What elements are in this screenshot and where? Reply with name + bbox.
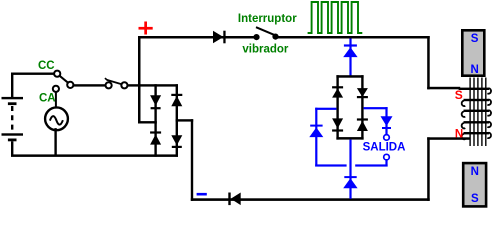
label SALIDA xyxy=(363,141,406,153)
wire switch bus (y=85) xyxy=(128,84,178,86)
diode D4 (bridge lower-left, pointing up) xyxy=(150,131,161,144)
wire right riser bottom xyxy=(427,137,430,201)
diode D9 (BR2 upper-right, pointing down) xyxy=(357,88,368,98)
wire top bus left segment xyxy=(138,36,257,39)
svg-text:N: N xyxy=(470,64,478,76)
bridge BR1 left branch wire xyxy=(154,84,156,157)
bridge BR2 right branch xyxy=(361,75,363,139)
wire bottom-right bus xyxy=(191,198,430,201)
node SALIDA terminal top xyxy=(384,135,390,141)
svg-text:N: N xyxy=(455,128,463,140)
diode D3 (bridge upper-right, pointing up) xyxy=(171,94,182,106)
bridge BR2 left branch xyxy=(336,75,338,139)
diode D1 (top wire, pointing right) xyxy=(213,31,226,44)
label S (red, coil top) xyxy=(455,88,463,102)
diode D2 (bridge upper-left, pointing down) xyxy=(150,95,161,109)
label vibrador xyxy=(242,44,289,56)
wire blue mid-left horizontal xyxy=(315,108,336,110)
diode D7 (blue, top center, pointing up) xyxy=(343,44,357,57)
magnet M1 (top, S/N) xyxy=(462,30,484,76)
diode D10 (BR2 lower-left, pointing down) xyxy=(332,118,343,131)
svg-text:CC: CC xyxy=(38,60,55,72)
switch SW3 contacts xyxy=(105,78,128,88)
node + (positive terminal label) xyxy=(139,22,153,35)
transformer core laminations xyxy=(470,78,486,147)
diode D12 (blue left, pointing up) xyxy=(309,125,323,138)
node SALIDA terminal bottom xyxy=(384,154,390,160)
diode D8 (BR2 upper-left, pointing up) xyxy=(332,86,343,97)
svg-text:S: S xyxy=(471,33,479,45)
svg-text:Interruptor: Interruptor xyxy=(238,13,297,25)
wire pole to switch SW3 xyxy=(73,84,105,86)
svg-text:N: N xyxy=(471,166,479,178)
wire blue center vertical to bottom bus xyxy=(349,140,351,199)
wire blue left vertical xyxy=(315,108,317,167)
wire blue right vertical xyxy=(385,107,387,135)
svg-text:S: S xyxy=(455,88,463,102)
diode D13 (blue right, pointing down) xyxy=(381,116,393,129)
wire to coil bottom xyxy=(427,137,470,140)
wire mid-right horizontal from bridge xyxy=(176,119,194,121)
wire bottom-left bus xyxy=(11,154,178,157)
bridge BR2 top bar xyxy=(336,75,363,78)
diode D5 (bridge lower-right, pointing down) xyxy=(171,135,182,148)
switch SW2 selector blade xyxy=(59,75,69,83)
diode D6 (bottom wire, pointing left) xyxy=(228,193,240,206)
wire right vertical down to bottom bus xyxy=(191,119,193,201)
wire left vertical from top bus xyxy=(138,36,141,124)
wire mid-left horizontal to bridge xyxy=(138,121,157,123)
label Interruptor xyxy=(238,13,297,25)
node CC terminal xyxy=(54,71,60,77)
coil L2 winding turns xyxy=(459,88,491,140)
svg-text:CA: CA xyxy=(39,92,56,104)
diode D11 (BR2 lower-right, pointing up) xyxy=(357,118,368,131)
ac source G1 xyxy=(45,107,68,130)
wire battery top to CC terminal xyxy=(11,73,54,75)
svg-text:vibrador: vibrador xyxy=(242,44,289,56)
switch SW1 vibrator contacts xyxy=(253,27,278,40)
wire AC source to bottom bus xyxy=(54,128,56,156)
inductor L1 (green square-wave coil) xyxy=(308,2,363,33)
wire blue bottom horizontal right part xyxy=(355,164,387,166)
svg-text:S: S xyxy=(471,193,479,205)
node - (negative terminal label) xyxy=(197,193,207,196)
node selector pole xyxy=(67,82,73,88)
wire blue mid-right horizontal xyxy=(364,107,388,109)
label N (red, coil bottom) xyxy=(455,128,463,140)
battery B1 xyxy=(2,73,24,156)
bridge BR1 right branch wire xyxy=(176,84,178,157)
diode D14 (blue bottom center, pointing up) xyxy=(343,176,357,188)
wire blue center vertical from top bus xyxy=(349,39,351,77)
wire blue from bottom terminal xyxy=(385,160,387,167)
wire CA terminal to AC source xyxy=(55,92,57,110)
label CA xyxy=(39,92,56,104)
svg-text:SALIDA: SALIDA xyxy=(363,141,406,153)
node CA terminal xyxy=(53,86,59,92)
magnet M2 (bottom, N/S) xyxy=(463,163,486,206)
wire blue bottom horizontal left part xyxy=(315,164,346,166)
label CC xyxy=(38,60,55,72)
wire right riser top (bus to transformer top) xyxy=(427,36,430,89)
wire to coil top xyxy=(427,87,460,90)
wire top bus right segment xyxy=(276,36,430,39)
bridge BR2 bottom bar xyxy=(336,137,363,140)
